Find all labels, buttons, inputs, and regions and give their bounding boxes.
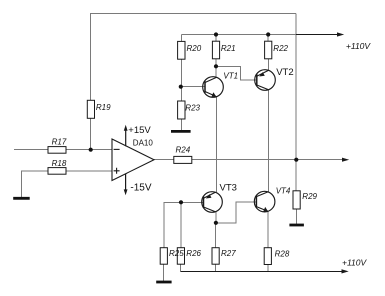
wire R18 to op-amp non-inverting input — [21, 171, 112, 198]
op-amp +15V supply arrow — [124, 125, 152, 146]
svg-text:R17: R17 — [52, 137, 67, 146]
svg-text:R24: R24 — [176, 146, 191, 155]
wire VT3 base with R25 drop — [164, 202, 204, 247]
node dot VT3 collector junction — [214, 221, 218, 225]
wire right rail from top to R29 — [295, 14, 297, 191]
node dot R22 top — [266, 32, 270, 36]
wire VT1 emitter to VT3 emitter — [215, 97, 217, 193]
svg-text:R29: R29 — [302, 192, 317, 201]
resistor R26 — [177, 248, 201, 265]
wire R28 bottom stub — [267, 265, 269, 272]
wire junction to R27 — [215, 223, 217, 248]
svg-text:VT1: VT1 — [223, 72, 238, 81]
svg-text:R28: R28 — [275, 250, 290, 259]
resistor R23 — [178, 101, 201, 119]
resistor R28 — [264, 248, 290, 265]
wire VT2 collector to VT4 collector — [268, 90, 270, 192]
wire VT3 collector to junction — [215, 212, 217, 223]
wire op-amp output bus — [154, 159, 343, 161]
ground below R23 — [171, 130, 191, 133]
ground below R29 — [289, 224, 304, 227]
resistor R19 — [87, 100, 111, 118]
svg-text:VT3: VT3 — [220, 182, 237, 193]
ground below R18 — [13, 197, 30, 200]
wire +110V top bus — [181, 34, 296, 36]
svg-text:+15V: +15V — [128, 125, 151, 136]
svg-text:-15V: -15V — [130, 182, 151, 193]
transistor VT2 — [255, 67, 294, 90]
op-amp -15V supply arrow — [124, 174, 152, 196]
resistor R27 — [212, 248, 236, 265]
wire R26 bottom stub — [180, 264, 182, 271]
node dot output bus / R29 — [294, 158, 298, 162]
node dot VT1 base / R20-R23 — [179, 85, 183, 89]
svg-text:VT4: VT4 — [276, 187, 291, 196]
wire R26 drop from VT3 base — [180, 202, 182, 247]
wire R22 bottom to VT2 emitter — [267, 59, 269, 71]
svg-text:R26: R26 — [186, 249, 201, 258]
wire junction to VT4 base — [216, 202, 257, 223]
svg-text:VT2: VT2 — [276, 67, 293, 78]
svg-text:+110V: +110V — [342, 258, 368, 268]
wire input to R17 and op-amp inverting input — [14, 149, 112, 151]
resistor R21 — [212, 41, 235, 59]
wire VT1 base — [181, 86, 205, 88]
op-amp DA10 — [112, 138, 154, 180]
svg-text:R27: R27 — [221, 249, 236, 258]
svg-text:R22: R22 — [273, 44, 288, 53]
node dot inverting input — [89, 148, 93, 152]
wire R21 bottom to VT1 collector — [215, 59, 217, 78]
transistor VT3 — [202, 182, 237, 212]
svg-text:+110V: +110V — [346, 41, 372, 51]
resistor R29 — [293, 191, 318, 209]
wire +110V bottom bus — [181, 270, 342, 272]
svg-text:R21: R21 — [221, 44, 236, 53]
wire R21 top stub — [215, 35, 217, 42]
resistor R22 — [265, 41, 289, 59]
arrow +110V bottom — [342, 258, 368, 274]
svg-text:R19: R19 — [96, 103, 111, 112]
wire R25 to ground — [163, 264, 165, 281]
resistor R20 — [178, 41, 202, 59]
wire R20 top stub — [180, 35, 182, 42]
resistor R18 — [48, 159, 67, 174]
node dot R21 top — [214, 32, 218, 36]
svg-text:R23: R23 — [185, 104, 200, 113]
svg-text:R18: R18 — [52, 159, 67, 168]
wire R29 bottom stem — [296, 209, 298, 224]
wire VT4 emitter to R28 — [267, 211, 269, 247]
wire R22 top stub — [267, 35, 269, 42]
wire R27 bottom stub — [215, 264, 217, 271]
wire branch VT1 collector to VT2 base — [216, 66, 257, 80]
resistor R17 — [48, 137, 67, 153]
svg-text:DA10: DA10 — [133, 138, 154, 147]
arrow +110V top — [337, 32, 371, 51]
node dot VT1 collector — [214, 64, 218, 68]
resistor R25 — [160, 248, 167, 265]
wire R20 to R23 chain — [180, 59, 182, 130]
wire feedback loop top-left — [91, 14, 296, 150]
svg-text:R25: R25 — [169, 249, 184, 258]
resistor R24 — [174, 146, 192, 164]
transistor VT4 — [254, 187, 291, 212]
wire +110V top bus black segment — [296, 34, 338, 36]
arrow output — [342, 158, 349, 162]
svg-text:R20: R20 — [187, 44, 202, 53]
transistor VT1 — [203, 72, 238, 98]
ground below R25 — [156, 281, 171, 284]
node dot VT3 base / R26 — [179, 200, 183, 204]
